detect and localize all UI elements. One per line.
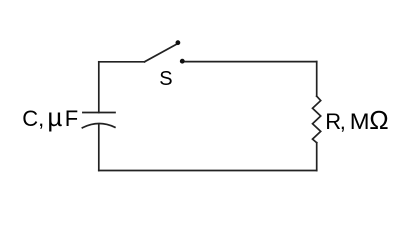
switch stationary contact dot bbox=[180, 59, 185, 64]
svg-text:µ: µ bbox=[47, 102, 62, 132]
label M (mega prefix) bbox=[350, 109, 370, 134]
resistor R zigzag body bbox=[313, 96, 321, 143]
svg-text:M: M bbox=[350, 109, 370, 134]
svg-text:C,: C, bbox=[22, 106, 44, 131]
wire left vertical upper segment (top rail to capacitor top plate) bbox=[98, 62, 100, 113]
svg-text:R: R bbox=[325, 109, 341, 134]
wire top rail right segment bbox=[184, 61, 317, 63]
wire top rail left segment bbox=[99, 61, 145, 63]
svg-text:S: S bbox=[159, 68, 172, 90]
svg-text:Ω: Ω bbox=[369, 105, 388, 135]
svg-text:,: , bbox=[340, 109, 346, 134]
wire right vertical upper segment (top rail to resistor) bbox=[316, 62, 318, 97]
capacitor C curved plate bbox=[82, 124, 115, 128]
wire left vertical lower segment (capacitor curved plate to bottom rail) bbox=[98, 124, 100, 171]
wire bottom rail bbox=[99, 170, 317, 172]
switch blade tip contact dot bbox=[176, 40, 181, 45]
wire right vertical lower segment (resistor to bottom rail) bbox=[316, 143, 318, 171]
switch S blade (open) bbox=[145, 44, 177, 61]
svg-text:F: F bbox=[65, 106, 78, 131]
capacitor C flat plate bbox=[83, 112, 115, 114]
